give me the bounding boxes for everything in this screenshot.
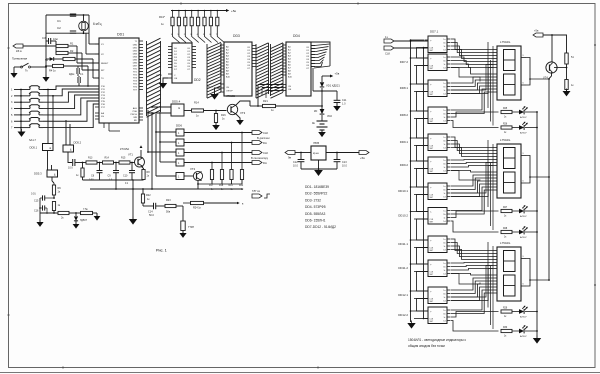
wire DD4 select elbow xyxy=(258,85,282,107)
wire backup supply node xyxy=(313,76,337,109)
ground xyxy=(73,222,80,229)
LED VD5 xyxy=(512,106,538,119)
resistor R15 xyxy=(119,157,130,165)
terminal +5V out xyxy=(359,151,369,161)
ground xyxy=(314,168,323,176)
resistor R16v xyxy=(76,163,84,181)
svg-text:DD3- 2732: DD3- 2732 xyxy=(305,198,321,202)
ground xyxy=(159,81,167,89)
resistor R21 xyxy=(263,99,276,112)
svg-text:OE: OE xyxy=(174,78,178,80)
svg-text:PROG: PROG xyxy=(131,114,138,116)
svg-text:R2: R2 xyxy=(70,49,74,53)
wire R4 row xyxy=(45,65,99,86)
svg-text:1d: 1d xyxy=(443,221,445,223)
wire input to R1 xyxy=(23,45,56,47)
diode VD1 xyxy=(320,82,341,87)
resistor R4 xyxy=(49,64,64,72)
wire DD3 select to ground xyxy=(215,88,221,94)
svg-text:+5в: +5в xyxy=(231,9,236,13)
svg-text:В синтезатору: В синтезатору xyxy=(251,156,269,160)
wire RC bottom rail xyxy=(83,179,144,219)
svg-text:1b: 1b xyxy=(443,214,445,216)
svg-text:1d: 1d xyxy=(443,50,445,52)
wire gate interconnects xyxy=(48,120,73,181)
terminal DA out 2 xyxy=(251,156,269,165)
wire data bus fold right of DD4 xyxy=(311,42,330,91)
svg-text:L7544IL: L7544IL xyxy=(500,40,511,44)
svg-text:0.01: 0.01 xyxy=(31,193,36,196)
svg-text:C2: C2 xyxy=(57,26,61,30)
LED VD10 xyxy=(512,325,538,338)
resistor R10 xyxy=(52,197,60,213)
svg-text:VT4: VT4 xyxy=(543,76,548,80)
wire oscillator loop xyxy=(46,14,99,54)
capacitor C7 xyxy=(78,76,89,87)
svg-text:10.0: 10.0 xyxy=(68,167,73,170)
svg-text:R13: R13 xyxy=(88,157,93,160)
keypad switch matrix S1-S7 xyxy=(11,86,43,142)
ground xyxy=(407,321,415,329)
wire anode bus xyxy=(537,73,552,338)
svg-text:50.0: 50.0 xyxy=(149,214,154,217)
resistor R25 xyxy=(501,108,512,118)
svg-text:VT2: VT2 xyxy=(190,167,196,171)
svg-text:АЛ307: АЛ307 xyxy=(520,335,527,338)
resistor R35 xyxy=(551,34,574,79)
svg-text:1c: 1c xyxy=(444,317,446,319)
wire pullup bottoms xyxy=(197,180,242,190)
capacitor C15 xyxy=(31,193,54,203)
IC DD12.1 514ID2 xyxy=(398,287,450,304)
svg-text:CE: CE xyxy=(288,86,292,88)
svg-text:50в: 50в xyxy=(166,211,171,214)
svg-text:+5в: +5в xyxy=(360,156,365,160)
IC DD10.2 514ID2 xyxy=(398,208,450,225)
resistor R23 xyxy=(156,199,183,214)
svg-text:C16: C16 xyxy=(34,210,39,213)
wire left rail xyxy=(46,41,56,74)
transistor VT3 xyxy=(226,94,246,115)
svg-text:DD2- 555ИР22: DD2- 555ИР22 xyxy=(305,192,328,196)
resistor R36 xyxy=(554,67,574,91)
svg-text:DD9.2: DD9.2 xyxy=(400,163,409,167)
svg-text:VD2: VD2 xyxy=(327,115,332,118)
svg-text:WR: WR xyxy=(133,117,137,119)
IC DD8.1 514ID2 xyxy=(400,80,451,97)
svg-text:R24 1к: R24 1к xyxy=(193,207,202,210)
svg-text:Рис. 1: Рис. 1 xyxy=(156,249,167,253)
wire address bus chevron DD3-DD4 xyxy=(256,43,283,98)
svg-text:VT1: VT1 xyxy=(128,153,133,157)
svg-text:1d: 1d xyxy=(443,148,445,150)
svg-text:1b: 1b xyxy=(443,87,445,89)
svg-text:КТ315А: КТ315А xyxy=(120,147,129,151)
parts list xyxy=(305,185,336,229)
svg-text:ЗЕ 11: ЗЕ 11 xyxy=(207,87,213,89)
wire R1 to RESET xyxy=(56,46,99,63)
svg-text:1d: 1d xyxy=(443,171,445,173)
svg-text:1c: 1c xyxy=(444,90,446,92)
svg-text:1c: 1c xyxy=(444,117,446,119)
resistor R2 xyxy=(56,49,74,55)
svg-text:DD5.3: DD5.3 xyxy=(34,172,42,176)
switch SA1 xyxy=(21,63,31,72)
resistor R1 xyxy=(56,42,74,48)
svg-text:R28: R28 xyxy=(503,228,508,230)
terminal +5V display xyxy=(533,29,543,38)
LED VD7 xyxy=(512,205,538,218)
terminal TLG xyxy=(252,189,270,198)
capacitor C16 xyxy=(34,198,47,222)
svg-text:DD11.2: DD11.2 xyxy=(398,266,408,270)
svg-text:R27: R27 xyxy=(503,207,508,209)
note text xyxy=(408,338,467,348)
svg-text:R15: R15 xyxy=(121,157,126,160)
resistor R24 xyxy=(191,201,204,209)
IC DD7.1 514ID2 xyxy=(425,30,451,53)
pullup resistors R17-R20 xyxy=(209,132,244,191)
transistor VT1 xyxy=(120,147,145,167)
ground xyxy=(210,92,218,100)
svg-text:DD12.1: DD12.1 xyxy=(398,293,408,297)
svg-text:кр.ен: кр.ен xyxy=(313,152,319,155)
terminal 9V in xyxy=(285,151,295,160)
svg-text:C1: C1 xyxy=(57,19,61,23)
capacitor C2 xyxy=(57,26,76,33)
svg-text:1504ИЛ1 - светодиодные индикат: 1504ИЛ1 - светодиодные индикаторы с xyxy=(408,338,467,342)
svg-text:R20: R20 xyxy=(239,185,244,187)
terminal +5V xyxy=(226,9,236,13)
svg-text:1b: 1b xyxy=(443,61,445,63)
resistor R16 xyxy=(214,111,226,126)
resistor R13 xyxy=(86,157,97,165)
svg-text:DD3: DD3 xyxy=(233,34,240,38)
wire to diode xyxy=(69,212,97,214)
capacitor C3 xyxy=(42,36,58,44)
svg-text:Тревожная: Тревожная xyxy=(12,57,28,61)
wire HG2 anode bracket xyxy=(526,156,550,184)
svg-text:R14: R14 xyxy=(105,157,110,160)
wire switch xyxy=(14,66,47,73)
gate DD5.4 xyxy=(171,100,184,117)
svg-text:OE: OE xyxy=(288,89,292,91)
svg-text:КД/м: КД/м xyxy=(69,73,75,76)
display HG3 L7544IL xyxy=(493,241,527,301)
svg-text:1b: 1b xyxy=(443,314,445,316)
svg-text:1d: 1d xyxy=(443,301,445,303)
IC DD11.2 514ID2 xyxy=(398,260,450,277)
ground xyxy=(129,217,137,225)
capacitor C9 xyxy=(108,163,120,182)
IC DA1 regulator xyxy=(295,141,326,160)
resistor R14 xyxy=(192,101,204,118)
capacitor C11 xyxy=(334,91,347,106)
svg-text:ALE: ALE xyxy=(133,107,138,110)
IC DD8.2 514ID2 xyxy=(400,107,451,124)
IC DD2 555IR22 xyxy=(156,43,201,83)
svg-text:R29: R29 xyxy=(503,308,508,310)
svg-text:АЛ307: АЛ307 xyxy=(520,132,527,135)
LED VD9 xyxy=(512,306,538,319)
svg-text:DD10.2: DD10.2 xyxy=(398,214,408,218)
svg-text:1c: 1c xyxy=(444,297,446,299)
wire data bus DB0-DB7 chevron xyxy=(147,38,161,117)
transistor VT4 xyxy=(543,35,557,80)
svg-text:OE/VP: OE/VP xyxy=(226,90,233,92)
LED VD6 xyxy=(512,122,538,135)
svg-text:C10: C10 xyxy=(123,175,128,178)
svg-text:DD5.2: DD5.2 xyxy=(74,141,82,145)
svg-text:R21: R21 xyxy=(263,99,268,103)
svg-text:1b: 1b xyxy=(443,141,445,143)
resistor R29 xyxy=(501,308,512,318)
ground xyxy=(42,74,49,82)
svg-text:R23: R23 xyxy=(166,199,171,202)
svg-text:DD12.2: DD12.2 xyxy=(398,313,408,317)
svg-text:1c: 1c xyxy=(444,64,446,66)
svg-text:R13*: R13* xyxy=(159,15,165,19)
svg-text:1d: 1d xyxy=(443,121,445,123)
piezo ZQ2 xyxy=(181,206,194,233)
svg-text:1c: 1c xyxy=(444,218,446,220)
terminal CLK input xyxy=(384,46,394,56)
svg-text:ZD: ZD xyxy=(314,110,317,113)
svg-text:DD6- 155ЛН1: DD6- 155ЛН1 xyxy=(305,219,326,223)
svg-text:1.0: 1.0 xyxy=(342,103,346,106)
display HG2 L7544IL xyxy=(493,138,527,198)
zener VD2 xyxy=(314,109,332,118)
svg-text:1d: 1d xyxy=(443,250,445,252)
svg-text:DA: DA xyxy=(263,141,267,145)
IC DD9.2 514ID2 xyxy=(400,157,451,174)
IC DD11.1 514ID2 xyxy=(398,236,450,253)
gate DD5.3 xyxy=(34,170,58,177)
wire DD6 outputs xyxy=(184,133,252,177)
wire RC row xyxy=(81,162,135,164)
capacitor C1 xyxy=(57,14,76,23)
IC DD9.1 514ID2 xyxy=(400,134,451,151)
svg-text:VD1 КД521: VD1 КД521 xyxy=(326,84,340,88)
resistor network R13 x8 xyxy=(159,10,226,32)
wire bottom node xyxy=(40,212,58,214)
svg-text:КТ315Б: КТ315Б xyxy=(226,94,235,98)
svg-text:DD8.2: DD8.2 xyxy=(400,113,409,117)
wire segment bus group 1 xyxy=(451,39,499,128)
capacitor C13 xyxy=(334,153,348,170)
svg-text:R17: R17 xyxy=(209,185,214,187)
wire R21 to battery node xyxy=(250,105,322,107)
svg-text:ТЛГ вх: ТЛГ вх xyxy=(252,189,261,193)
svg-text:1b: 1b xyxy=(443,294,445,296)
svg-text:C3: C3 xyxy=(42,36,46,40)
svg-text:R18: R18 xyxy=(219,185,224,187)
diode VD3 xyxy=(45,57,54,62)
crystal ZQ1 xyxy=(79,21,102,31)
svg-text:&: & xyxy=(178,106,180,110)
resistor R27 xyxy=(501,207,512,217)
wire decoder data bus xyxy=(394,39,428,322)
svg-text:АЛ307: АЛ307 xyxy=(520,236,527,239)
svg-text:R19: R19 xyxy=(229,185,234,187)
svg-text:CLK: CLK xyxy=(263,151,268,155)
svg-text:VT3: VT3 xyxy=(240,111,246,115)
ground xyxy=(533,336,541,344)
capacitor C10 xyxy=(123,163,135,186)
ground xyxy=(36,220,43,227)
ground xyxy=(212,123,220,131)
svg-text:DD1- 1816ВЕ39: DD1- 1816ВЕ39 xyxy=(305,185,329,189)
display HG1 L7544IL xyxy=(493,40,527,100)
svg-text:R14: R14 xyxy=(194,101,199,105)
gate DD5.2 xyxy=(63,141,82,153)
svg-text:1b: 1b xyxy=(443,190,445,192)
capacitor C8 xyxy=(89,163,103,182)
svg-text:RESET: RESET xyxy=(101,63,109,65)
terminal CLK out 1 xyxy=(252,131,268,136)
wire HG3 anode bracket xyxy=(526,259,550,287)
wire address bus chevron DD2-DD3 xyxy=(207,42,221,98)
svg-text:DD4: DD4 xyxy=(293,34,300,38)
svg-text:+5в: +5в xyxy=(335,72,340,76)
svg-text:1b: 1b xyxy=(443,164,445,166)
IC DD7.2 514ID2 xyxy=(400,54,451,71)
terminal +5V backup xyxy=(322,72,340,78)
terminal input KZ xyxy=(13,44,23,53)
wire segment bus group 3 xyxy=(451,239,499,331)
resistor R8 xyxy=(142,167,151,181)
wire control lines down xyxy=(147,106,176,189)
IC DD10.1 514ID2 xyxy=(398,183,450,200)
wire segment bus group 2 xyxy=(451,137,499,232)
svg-text:DD5.1: DD5.1 xyxy=(30,146,38,150)
IC DD4 573RF5 xyxy=(282,34,315,96)
ground xyxy=(179,231,186,238)
svg-text:RD: RD xyxy=(134,120,138,122)
svg-text:1c: 1c xyxy=(444,144,446,146)
resistor R28 xyxy=(501,228,512,238)
IC DD6 inverters xyxy=(176,124,184,180)
svg-text:DD7-DD12 - 514ИД2: DD7-DD12 - 514ИД2 xyxy=(305,225,336,229)
svg-text:АЛ307: АЛ307 xyxy=(520,116,527,119)
terminal CLK out 2 xyxy=(252,151,268,156)
wire DA1 out xyxy=(326,152,359,154)
svg-text:DA: DA xyxy=(263,161,267,165)
battery GB1 xyxy=(312,115,328,132)
svg-text:6 мГц: 6 мГц xyxy=(93,22,102,26)
svg-text:10м: 10м xyxy=(53,37,58,41)
svg-text:1c: 1c xyxy=(444,193,446,195)
svg-text:DD8.1: DD8.1 xyxy=(400,86,409,90)
LED VD8 xyxy=(512,226,538,239)
diode VD4 xyxy=(74,213,88,224)
svg-text:DD1: DD1 xyxy=(117,33,124,37)
svg-text:DD10.1: DD10.1 xyxy=(398,189,408,193)
transistor VT2 xyxy=(190,167,203,181)
svg-text:1d: 1d xyxy=(443,68,445,70)
ground xyxy=(10,71,17,78)
svg-text:R4 1к: R4 1к xyxy=(49,69,56,73)
wire R2 to INT xyxy=(68,53,99,70)
ground xyxy=(333,104,341,112)
wire VT3 collector xyxy=(236,101,259,107)
svg-text:C15: C15 xyxy=(34,200,39,203)
svg-text:DD7.1: DD7.1 xyxy=(430,30,439,34)
svg-text:DD2: DD2 xyxy=(194,78,201,82)
resistor R22 xyxy=(141,188,151,206)
capacitor C14 xyxy=(143,203,156,217)
svg-text:R25: R25 xyxy=(503,108,508,110)
svg-text:9в: 9в xyxy=(288,156,292,160)
terminal DA out 1 xyxy=(252,136,270,145)
wire resistor fan xyxy=(171,32,224,43)
svg-text:10.0: 10.0 xyxy=(342,165,347,168)
svg-text:R30: R30 xyxy=(503,327,508,329)
svg-text:КЗ в: КЗ в xyxy=(16,49,22,53)
svg-text:OE 11: OE 11 xyxy=(156,75,163,77)
svg-text:DD11.1: DD11.1 xyxy=(398,242,408,246)
svg-text:1b: 1b xyxy=(443,43,445,45)
svg-text:CE: CE xyxy=(226,87,230,89)
capacitor C6 xyxy=(69,66,84,76)
label alarm xyxy=(12,57,28,61)
wire VT3 emitter ground xyxy=(236,114,244,125)
IC DD1 KR1816VE39 xyxy=(95,33,143,132)
ground xyxy=(94,213,101,221)
wire DD2 enable to ground xyxy=(163,78,168,83)
svg-text:1c: 1c xyxy=(444,167,446,169)
svg-text:CLK: CLK xyxy=(385,52,390,56)
svg-text:общим анодом без точки: общим анодом без точки xyxy=(408,344,445,348)
capacitor C7 row xyxy=(68,159,81,170)
svg-text:R26: R26 xyxy=(503,124,508,126)
svg-text:PSE: PSE xyxy=(133,111,138,113)
ground xyxy=(563,89,571,97)
svg-text:1b: 1b xyxy=(443,114,445,116)
wire DA1 ground xyxy=(301,160,337,170)
svg-text:ГД507: ГД507 xyxy=(80,219,88,222)
wire HG1 anode bracket xyxy=(526,58,550,86)
svg-text:CLK: CLK xyxy=(263,131,268,135)
svg-text:ГТ0Н: ГТ0Н xyxy=(188,226,194,229)
svg-text:1d: 1d xyxy=(443,274,445,276)
svg-text:1c: 1c xyxy=(444,46,446,48)
svg-text:1c: 1c xyxy=(444,270,446,272)
svg-text:DD7.2: DD7.2 xyxy=(400,60,409,64)
svg-text:L7544IL: L7544IL xyxy=(500,241,511,245)
svg-text:10.0: 10.0 xyxy=(293,165,298,168)
resistor R26 xyxy=(501,124,512,134)
resistor R30 xyxy=(501,327,512,337)
IC DD12.2 514ID2 xyxy=(398,307,450,324)
svg-text:R22: R22 xyxy=(146,194,151,197)
svg-text:DD6: DD6 xyxy=(176,124,182,128)
caption Fig 1 xyxy=(156,249,167,253)
wire gate to VT3 base xyxy=(184,110,227,112)
resistor R14 xyxy=(103,157,114,165)
svg-text:1d: 1d xyxy=(443,321,445,323)
wire R3 row xyxy=(46,59,99,78)
svg-text:DD4- 573РФ5: DD4- 573РФ5 xyxy=(305,205,326,209)
svg-text:1d: 1d xyxy=(443,94,445,96)
resistor R9 xyxy=(52,181,61,198)
svg-text:SA1-7: SA1-7 xyxy=(29,139,37,142)
IC DD3 2732 xyxy=(207,34,256,96)
svg-text:L7544IL: L7544IL xyxy=(500,138,511,142)
svg-text:В дисплеи: В дисплеи xyxy=(257,136,270,140)
svg-text:1b: 1b xyxy=(443,267,445,269)
resistor R11 xyxy=(58,211,69,219)
